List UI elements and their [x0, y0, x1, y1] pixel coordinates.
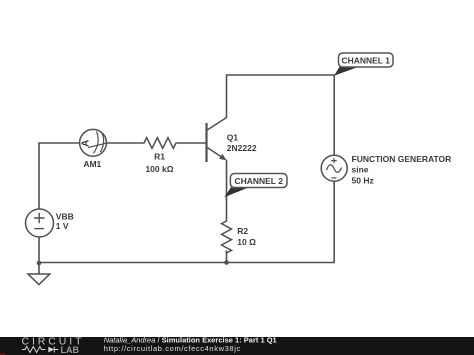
wire left vertical upper [38, 143, 40, 209]
CircuitLab logo squiggle (resistor + diode) [22, 347, 58, 353]
callout CHANNEL 2 [224, 174, 287, 198]
svg-text:VBB: VBB [56, 212, 74, 222]
svg-text:R2: R2 [237, 226, 248, 236]
function generator V1 [321, 154, 451, 185]
svg-text:A: A [80, 140, 91, 147]
svg-text:Q1: Q1 [227, 133, 239, 143]
wire R1 to Q1 base [176, 142, 207, 144]
svg-text:100 kΩ: 100 kΩ [145, 164, 173, 174]
wire right vertical lower [333, 181, 335, 262]
resistor R1 [144, 138, 176, 174]
footer bar [0, 337, 474, 355]
svg-text:CHANNEL 1: CHANNEL 1 [341, 55, 390, 65]
ammeter AM1 [80, 129, 107, 169]
svg-text:FUNCTION GENERATOR: FUNCTION GENERATOR [352, 154, 452, 164]
svg-text:http://circuitlab.com/cfecc4nk: http://circuitlab.com/cfecc4nkw38jc [104, 344, 241, 353]
footer red sliver [0, 353, 5, 355]
wire VBB to junction [38, 237, 40, 263]
wire collector vertical [226, 75, 228, 118]
svg-text:R1: R1 [154, 152, 165, 162]
wire right vertical upper [333, 75, 335, 155]
wire bottom horizontal [39, 262, 334, 264]
svg-text:CHANNEL 2: CHANNEL 2 [234, 176, 283, 186]
voltage source VBB [26, 209, 74, 237]
ground [28, 274, 50, 285]
resistor R2 [222, 221, 257, 253]
svg-text:LAB: LAB [61, 345, 80, 355]
wire left horizontal (rail to ammeter) [39, 142, 80, 144]
node junction at R2 bottom [224, 260, 229, 265]
wire top horizontal [227, 74, 335, 76]
svg-text:2N2222: 2N2222 [227, 143, 257, 153]
svg-text:50 Hz: 50 Hz [352, 175, 374, 185]
svg-text:10 Ω: 10 Ω [237, 237, 256, 247]
wire junction to ground [38, 263, 40, 274]
callout CHANNEL 1 [334, 53, 393, 76]
svg-text:1 V: 1 V [56, 221, 69, 231]
svg-text:sine: sine [352, 165, 369, 175]
svg-text:AM1: AM1 [83, 159, 101, 169]
transistor Q1 [207, 118, 257, 163]
node junction at VBB/ground [37, 261, 42, 266]
wire R2 bottom stub [226, 251, 228, 263]
wire emitter vertical [226, 160, 228, 221]
wire ammeter to R1 [107, 142, 145, 144]
